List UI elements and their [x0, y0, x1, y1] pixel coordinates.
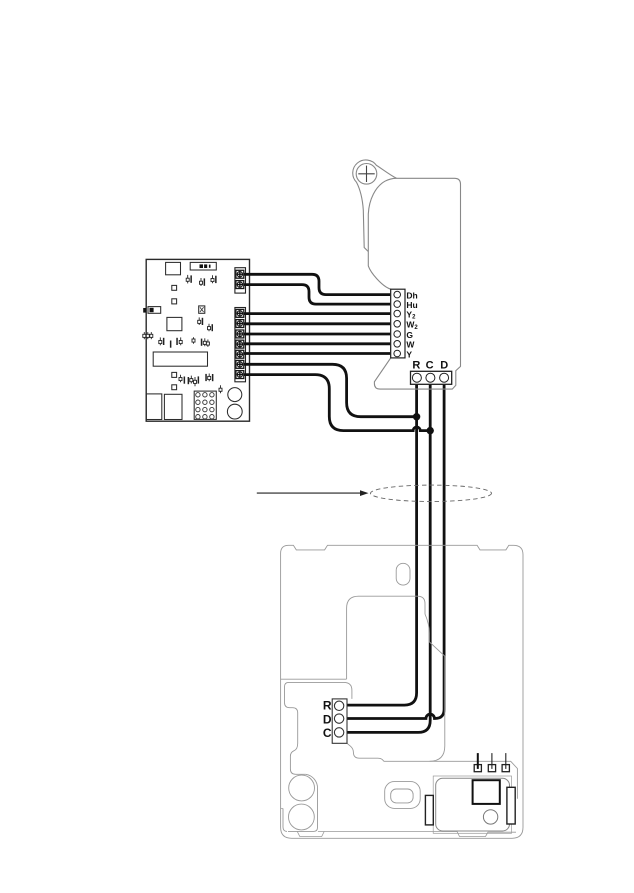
- wire from J2-6 to R junction: [244, 364, 417, 416]
- terminal J2-2: [236, 320, 244, 328]
- terminal Y: [394, 350, 401, 357]
- block right bracket: [507, 787, 515, 824]
- module screw tab outline: [353, 160, 397, 251]
- svg-text:C: C: [426, 360, 434, 372]
- svg-text:R: R: [412, 360, 420, 372]
- subpanel lower right outline: [347, 743, 429, 761]
- board terminal strip J1 (2-pos): [235, 268, 246, 293]
- terminal D bottom: [334, 714, 343, 723]
- bottom tab left: [297, 832, 324, 837]
- terminal J2-7: [236, 371, 244, 379]
- jumper pad JP1: [172, 285, 177, 290]
- screw boss inner circle: [356, 164, 377, 185]
- resistor R1 mark: [170, 341, 172, 348]
- wire Y: [244, 352, 394, 355]
- subpanel left step: [285, 703, 306, 775]
- mounting hole H1: [228, 388, 242, 402]
- center button outer: [385, 782, 421, 809]
- terminal R: [412, 373, 421, 382]
- block black square: [473, 780, 500, 804]
- connector J4: [146, 394, 162, 420]
- wire G: [244, 333, 394, 336]
- wire R down to backplate: [344, 378, 417, 705]
- svg-text:Y: Y: [406, 349, 412, 359]
- terminal J2-3: [236, 330, 244, 338]
- backplate inner raised area: [347, 596, 445, 761]
- block outer thin rect: [433, 776, 511, 833]
- svg-text:Hu: Hu: [406, 300, 417, 310]
- arrow callout: [257, 490, 369, 496]
- capacitor C9: [192, 337, 195, 343]
- wire W2: [244, 322, 394, 325]
- capacitor pair C11: [179, 375, 185, 384]
- backplate screw hole circle 1: [289, 775, 315, 801]
- header J6 pin grid: [194, 391, 216, 419]
- jumper pad JP2: [172, 299, 177, 304]
- terminal D: [440, 373, 449, 382]
- module RCD strip: [411, 371, 452, 384]
- capacitor trio C13: [205, 374, 213, 382]
- dashed ellipse cable bundle: [371, 485, 492, 501]
- screw cross: [358, 166, 374, 182]
- module connector strip (7-pos): [391, 289, 405, 358]
- backplate oval hole: [396, 563, 410, 585]
- capacitor pair C5: [208, 324, 214, 331]
- terminal J2-4: [236, 340, 244, 348]
- jumper pad JP3: [172, 372, 177, 377]
- backplate inner line to pins panel: [429, 761, 517, 798]
- subpanel left lower edge: [281, 808, 287, 831]
- terminal Dh: [394, 291, 401, 298]
- connector J3 left edge: [143, 307, 161, 314]
- capacitor pair C7: [159, 337, 165, 345]
- IC U3: [167, 317, 182, 330]
- terminal J2-1: [236, 309, 244, 317]
- IC U1: [166, 262, 181, 274]
- block inner rounded rect: [436, 778, 510, 831]
- pin component P1: [474, 753, 481, 772]
- mounting hole H2: [227, 404, 242, 419]
- capacitor pair C8: [176, 337, 182, 345]
- component D1 box with mark: [199, 306, 205, 313]
- terminal J2-5: [236, 350, 244, 358]
- connector J5: [164, 394, 182, 419]
- terminal Y2: [394, 310, 401, 317]
- capacitor C14: [219, 385, 222, 393]
- pin component P2: [488, 753, 495, 772]
- terminal C: [426, 373, 435, 382]
- bottom inner line with tabs: [318, 832, 516, 837]
- capacitor pair C1: [186, 275, 192, 284]
- control board outline: [146, 259, 249, 421]
- capacitor trio C6: [143, 332, 153, 339]
- svg-text:C: C: [323, 726, 332, 740]
- svg-text:D: D: [323, 712, 332, 726]
- terminal J1-1: [236, 270, 244, 278]
- jumper pad JP4: [172, 385, 177, 390]
- capacitor trio C10: [201, 338, 210, 347]
- terminal C bottom: [334, 728, 343, 737]
- capacitor pair C3: [211, 275, 217, 283]
- wire Y2: [244, 312, 394, 315]
- svg-text:Dh: Dh: [406, 290, 417, 300]
- subpanel arc around screw hole: [288, 774, 318, 831]
- terminal W: [394, 341, 401, 348]
- junction dot R: [413, 413, 420, 420]
- pin component P3: [502, 753, 509, 772]
- terminal J1-2: [236, 281, 244, 289]
- relay K1: [153, 352, 207, 366]
- IC U2 with dark bars: [190, 262, 216, 270]
- svg-text:W: W: [406, 340, 415, 350]
- block left bracket: [425, 795, 433, 825]
- terminal G: [394, 331, 401, 338]
- block circle: [483, 810, 497, 824]
- subpanel upper outline: [285, 682, 352, 702]
- wire Dh: [244, 274, 394, 294]
- subpanel top line: [281, 678, 347, 680]
- svg-text:G: G: [406, 330, 413, 340]
- board terminal strip J2 (7-pos): [235, 308, 246, 382]
- svg-text:R: R: [323, 699, 332, 713]
- junction dot C: [427, 427, 434, 434]
- capacitor cluster C12: [188, 376, 200, 387]
- module body outline: [368, 178, 460, 389]
- backplate terminal strip R D C: [332, 699, 347, 743]
- capacitor pair C4: [198, 317, 204, 325]
- svg-text:D: D: [440, 360, 448, 372]
- capacitor pair C2: [200, 278, 206, 286]
- center button inner: [391, 789, 413, 803]
- backplate screw hole circle 2: [289, 804, 315, 830]
- terminal R bottom: [334, 701, 343, 710]
- terminal J2-6: [236, 360, 244, 368]
- wire W: [244, 342, 394, 345]
- wire C down to backplate: [344, 378, 430, 733]
- backplate outer outline with top notches: [281, 545, 523, 838]
- wire D down to backplate with hop over C: [344, 378, 444, 719]
- wire Hu: [244, 285, 394, 305]
- terminal Hu: [394, 301, 401, 308]
- terminal W2: [394, 321, 401, 328]
- wire from J2-7 to C junction with hop over R: [244, 375, 430, 431]
